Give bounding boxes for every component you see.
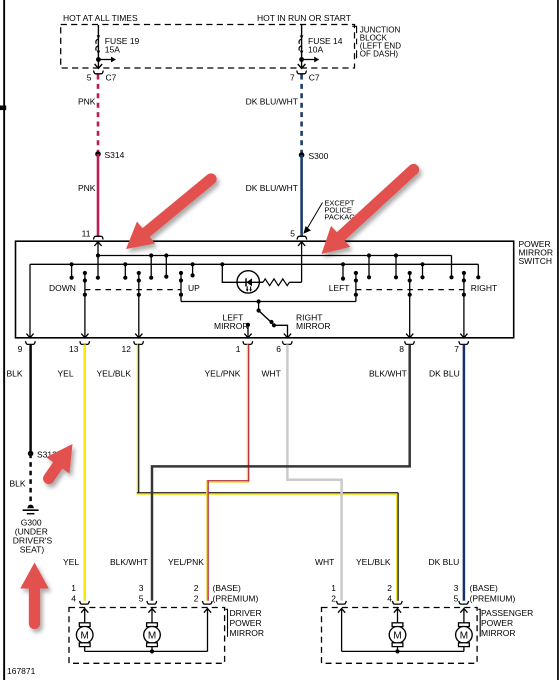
wire WHT pin 6 [287, 344, 341, 600]
svg-text:YEL/PNK: YEL/PNK [205, 368, 241, 378]
junction block bracket [352, 26, 356, 58]
svg-text:MIRROR: MIRROR [214, 321, 248, 331]
passenger box bracket [478, 609, 480, 637]
svg-text:2: 2 [194, 583, 199, 593]
svg-text:5: 5 [87, 72, 92, 82]
junction block dashed box [61, 25, 355, 69]
right page border line [557, 0, 559, 680]
svg-text:4: 4 [387, 594, 392, 604]
driver power mirror box [69, 608, 225, 664]
bus line 1 (feed from pin 11) [98, 255, 452, 257]
connector cap at switch pin 5 [297, 236, 307, 239]
driver box bracket [226, 609, 228, 637]
svg-text:YEL: YEL [63, 557, 79, 567]
lower wire labels [63, 557, 459, 567]
switch bottom pin numbers [18, 344, 460, 354]
svg-text:1: 1 [71, 583, 76, 593]
svg-text:BLK/WHT: BLK/WHT [110, 557, 148, 567]
svg-text:POWER: POWER [230, 618, 262, 628]
contact stubs with end dots [72, 256, 423, 279]
svg-text:6: 6 [276, 344, 281, 354]
arrowhead down at connector C7 pin 7 [298, 64, 306, 68]
passenger mirror internal bus [342, 650, 464, 652]
svg-text:PASSENGER: PASSENGER [481, 608, 533, 618]
power mirror switch box U1 [16, 241, 514, 338]
svg-text:8: 8 [399, 344, 404, 354]
label EXCEPT POLICE PACKAGE [324, 198, 360, 221]
splice S300 [299, 152, 305, 158]
svg-text:1: 1 [236, 344, 241, 354]
motor M passenger horizontal [456, 623, 473, 652]
svg-text:DOWN: DOWN [49, 283, 76, 293]
pin 5 entry arrow into switch [301, 242, 303, 282]
svg-text:MIRROR: MIRROR [481, 628, 515, 638]
wire DK BLU pin 7 [463, 344, 466, 600]
svg-text:MIRROR: MIRROR [230, 628, 264, 638]
wire YEL pin 13 [83, 344, 86, 600]
svg-text:OF DASH): OF DASH) [360, 50, 399, 59]
wire PNK solid (S314 to pin 11) [97, 154, 100, 236]
label DRIVER POWER MIRROR [230, 608, 264, 638]
svg-text:BLK: BLK [10, 479, 26, 489]
svg-text:11: 11 [82, 228, 91, 238]
svg-text:S300: S300 [309, 151, 329, 161]
motor M passenger vertical [389, 623, 406, 652]
driver entry arrows [81, 609, 211, 613]
svg-text:5: 5 [139, 594, 144, 604]
svg-text:5: 5 [454, 594, 459, 604]
svg-text:HOT IN RUN OR START: HOT IN RUN OR START [257, 13, 351, 23]
fuse F14 element [299, 39, 302, 50]
svg-text:(BASE): (BASE) [213, 583, 242, 593]
svg-text:13: 13 [69, 344, 79, 354]
selector pivot junction [257, 299, 261, 303]
wire DK BLU/WHT dashed (fuse 14 to S300) [300, 75, 303, 156]
fuse F19 wire from box top [97, 25, 99, 35]
fuse F19 element [96, 39, 99, 50]
svg-text:1: 1 [331, 583, 336, 593]
svg-text:M: M [148, 630, 156, 641]
svg-text:HOT AT ALL TIMES: HOT AT ALL TIMES [63, 13, 138, 23]
branch arrow right from fuse F14 [302, 59, 316, 61]
wire YEL/PNK pin 1 vertical [246, 344, 248, 482]
splice S314 [95, 151, 101, 157]
splice S312 [28, 451, 34, 457]
svg-text:(PREMIUM): (PREMIUM) [213, 594, 259, 604]
switch contact column pin 13 [84, 273, 86, 337]
svg-text:MIRROR: MIRROR [296, 321, 330, 331]
exit arrowheads at switch bottom [26, 334, 467, 338]
left page border line [3, 0, 5, 680]
svg-text:LEFT: LEFT [329, 283, 350, 293]
svg-text:7: 7 [454, 344, 459, 354]
wire BLK/WHT pin 8 [152, 344, 410, 600]
red annotation arrow 3 (at S312) [46, 444, 73, 479]
selector blade [259, 311, 273, 324]
wire PNK dashed (fuse 19 to S314) [97, 75, 100, 155]
driver mirror internal bus [85, 650, 208, 652]
wire DK BLU/WHT solid (S300 to pin 5) [300, 155, 303, 236]
svg-text:SEAT): SEAT) [20, 545, 45, 555]
svg-text:BLK: BLK [7, 368, 23, 378]
label PASSENGER POWER MIRROR [481, 608, 533, 638]
svg-text:C7: C7 [309, 72, 320, 82]
svg-text:BLK/WHT: BLK/WHT [369, 368, 407, 378]
motor M driver horizontal [144, 623, 161, 652]
svg-text:RIGHT: RIGHT [471, 283, 497, 293]
svg-text:2: 2 [194, 594, 199, 604]
red annotation arrow 1 (at pin 11) [126, 179, 211, 249]
svg-text:PNK: PNK [78, 183, 96, 193]
wire BLK pin 9 solid [29, 344, 32, 453]
svg-text:YEL/PNK: YEL/PNK [168, 557, 204, 567]
switch contact column pin 12 [138, 273, 140, 337]
illumination lamp DS1 [237, 271, 259, 293]
svg-text:M: M [393, 630, 401, 641]
svg-text:9: 9 [18, 344, 23, 354]
selector left contact to pin 1 [246, 323, 250, 327]
wire BLK dashed to ground [29, 454, 32, 502]
ground G300 [27, 505, 33, 509]
label POWER MIRROR SWITCH [519, 239, 553, 266]
svg-text:YEL/BLK: YEL/BLK [356, 557, 391, 567]
svg-text:YEL: YEL [58, 368, 74, 378]
arrowhead down at connector C7 pin 5 [95, 64, 103, 68]
svg-text:UP: UP [188, 283, 200, 293]
svg-text:DK BLU/WHT: DK BLU/WHT [246, 97, 298, 107]
svg-text:PNK: PNK [78, 97, 96, 107]
driver mirror pin numbers [71, 583, 199, 604]
junction dot under fuse F14 [299, 57, 304, 62]
mechanical linkage dashed (left/right) [356, 289, 464, 291]
wire YEL/BLK horizontal [137, 492, 398, 494]
svg-text:15A: 15A [105, 45, 120, 55]
leader arrow to pin 5 [308, 203, 323, 229]
connector cups below switch [26, 341, 469, 344]
branch arrow right from fuse F19 [98, 59, 112, 61]
pin 11 entry arrow into switch [97, 242, 99, 278]
svg-text:3: 3 [139, 583, 144, 593]
svg-text:S314: S314 [105, 150, 125, 160]
svg-text:7: 7 [290, 72, 295, 82]
wire YEL/PNK horizontal [207, 480, 249, 482]
left edge tick mark [0, 106, 6, 111]
lamp feed wire [222, 264, 263, 282]
switch contact column LEFT [355, 273, 357, 302]
svg-text:POWER: POWER [481, 618, 513, 628]
switch contact column UP [180, 273, 182, 302]
connector cap at switch pin 11 [93, 236, 103, 239]
switch contact column pin 7 [463, 273, 465, 337]
red annotation arrow 4 (at G300) [20, 563, 49, 624]
selector right contact elbow to pin 6 [274, 325, 288, 337]
svg-text:(PREMIUM): (PREMIUM) [470, 594, 516, 604]
mechanical linkage dashed (down/up) [85, 289, 181, 291]
svg-text:4: 4 [71, 594, 76, 604]
svg-text:DK BLU/WHT: DK BLU/WHT [246, 183, 298, 193]
svg-text:2: 2 [331, 594, 336, 604]
svg-text:DRIVER: DRIVER [230, 608, 262, 618]
passenger mirror pin numbers [331, 583, 458, 604]
passenger entry arrows [338, 609, 468, 613]
bus line 2 [30, 263, 478, 265]
svg-text:DK BLU: DK BLU [429, 557, 460, 567]
label JUNCTION BLOCK (LEFT END OF DASH) [360, 26, 401, 59]
connector C7 pin 5 cup [94, 71, 104, 74]
svg-text:M: M [460, 630, 468, 641]
svg-text:3: 3 [454, 583, 459, 593]
svg-text:WHT: WHT [262, 368, 281, 378]
svg-text:M: M [81, 630, 89, 641]
wire YEL/BLK lower vertical [396, 493, 398, 600]
svg-text:DK BLU: DK BLU [429, 368, 460, 378]
bus junction dots [70, 253, 425, 266]
svg-text:(BASE): (BASE) [470, 583, 499, 593]
passenger power mirror box [322, 608, 478, 664]
svg-text:167871: 167871 [7, 666, 36, 676]
selector common line [181, 301, 356, 303]
wire YEL/BLK pin 12 vertical [136, 344, 138, 493]
wire YEL/PNK lower vertical [206, 481, 208, 601]
svg-text:10A: 10A [308, 45, 323, 55]
connector cups at mirror inputs [80, 601, 469, 604]
svg-text:5: 5 [290, 228, 295, 238]
red annotation arrow 2 (at pin 5) [322, 170, 414, 255]
junction dot under fuse F19 [96, 57, 101, 62]
svg-text:2: 2 [387, 583, 392, 593]
label G300 (UNDER DRIVER'S SEAT) [13, 518, 53, 555]
connector C7 pin 7 cup [297, 71, 307, 74]
svg-text:YEL/BLK: YEL/BLK [97, 368, 132, 378]
svg-text:SWITCH: SWITCH [519, 256, 553, 266]
pin 9 wire inside switch [29, 264, 31, 337]
switch contact column pin 8 [409, 273, 411, 337]
svg-text:C7: C7 [106, 72, 117, 82]
fuse F14 wire from box top [301, 25, 303, 35]
svg-text:WHT: WHT [315, 557, 334, 567]
svg-text:12: 12 [122, 344, 132, 354]
resistor R1 [259, 281, 263, 283]
motor M driver vertical [76, 623, 93, 652]
